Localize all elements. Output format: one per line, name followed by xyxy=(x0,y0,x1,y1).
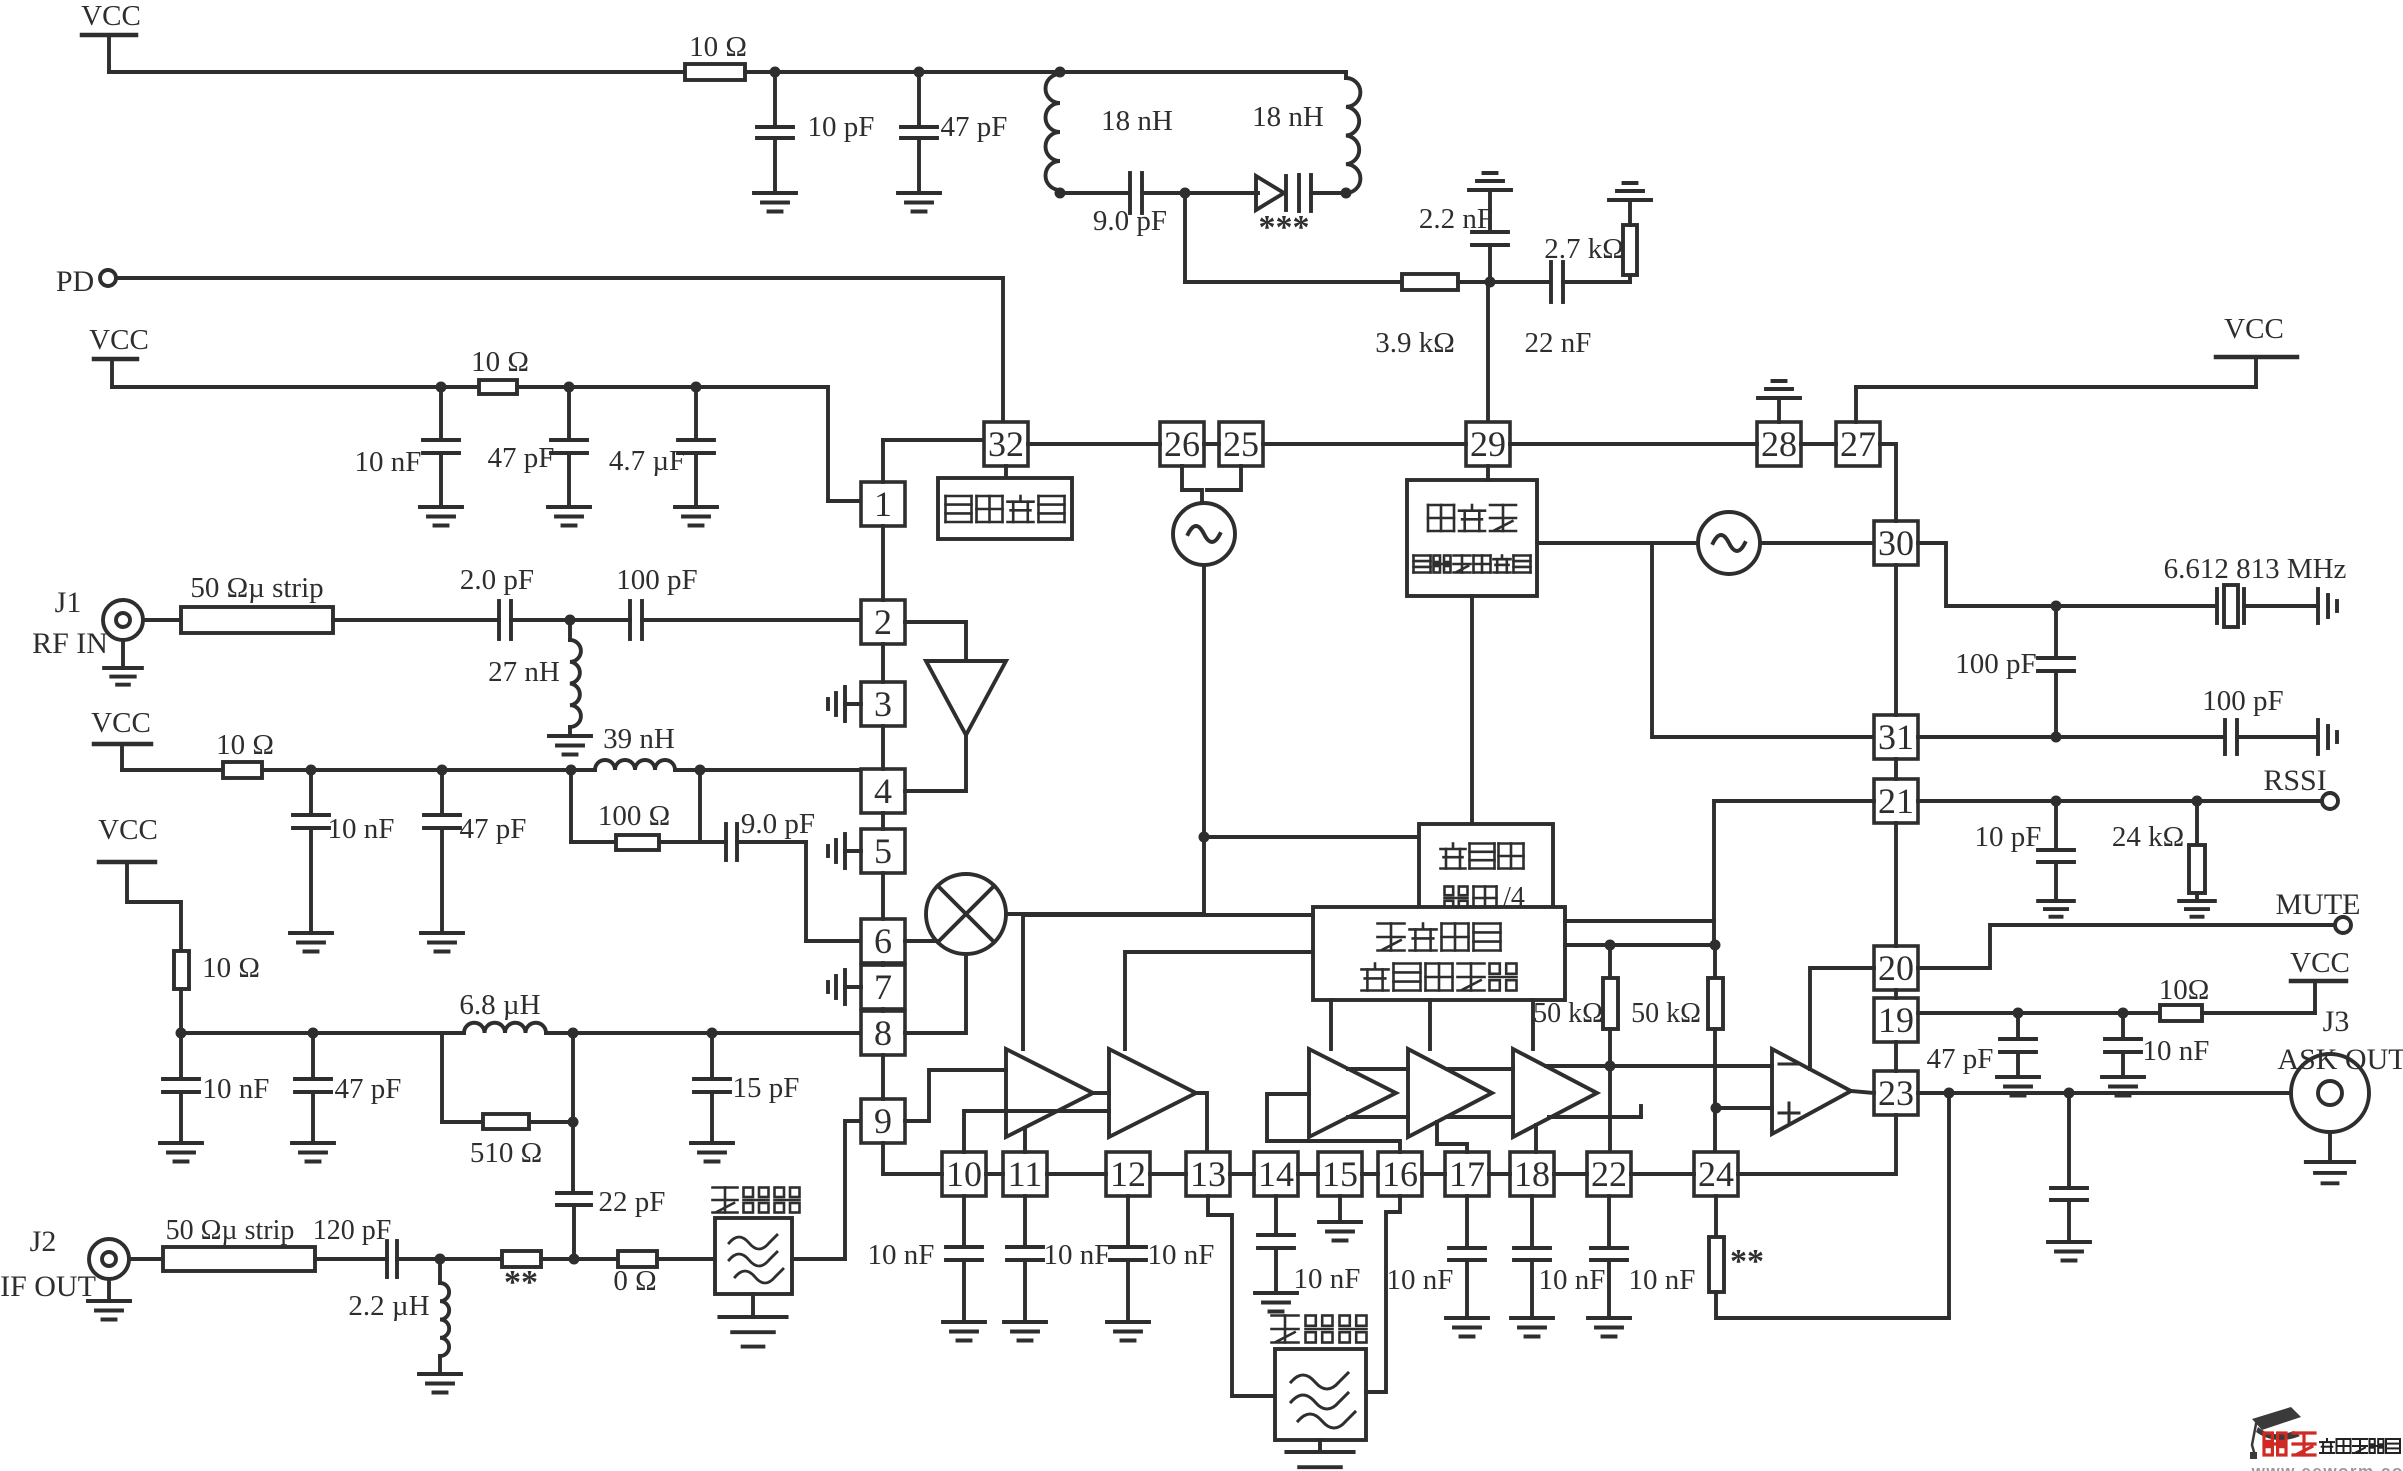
capacitor 15 pF xyxy=(694,1033,799,1143)
inductor 27 nH xyxy=(488,620,581,727)
wire pin19 right xyxy=(1918,1011,2160,1015)
ground pin 7 xyxy=(828,970,861,1004)
svg-text:7: 7 xyxy=(874,967,892,1007)
wire pin19-23 xyxy=(1894,1042,1898,1071)
wire pin4-pin5 xyxy=(881,813,885,829)
wire block right upper xyxy=(1565,919,1714,923)
svg-text:22 nF: 22 nF xyxy=(1525,327,1592,359)
wire filter to pin 9 xyxy=(792,1121,861,1259)
IC pin 7 xyxy=(861,965,905,1009)
ground xyxy=(1997,1077,2039,1096)
power VCC (top right) xyxy=(2216,313,2297,387)
wire rail3 to pin 4 xyxy=(675,768,861,772)
svg-text:3.9 kΩ: 3.9 kΩ xyxy=(1375,327,1455,359)
node junction xyxy=(691,382,702,393)
svg-text:510 Ω: 510 Ω xyxy=(470,1137,542,1169)
wire rail 3 xyxy=(122,768,223,772)
capacitor 10 nF (pin11) xyxy=(1007,1196,1110,1322)
capacitor 2.2 nF xyxy=(1419,190,1508,282)
ground xyxy=(1588,1318,1630,1337)
microstrip 50 Ohm (J1) xyxy=(181,572,333,633)
wire pin29 to block xyxy=(1486,466,1490,480)
IC pin 3 xyxy=(861,682,905,726)
node junction xyxy=(1944,1088,1955,1099)
svg-text:11: 11 xyxy=(1008,1154,1043,1194)
amplifier LNA xyxy=(926,661,1006,735)
wire pin11 to amp1 inv xyxy=(1023,1128,1027,1152)
node junction xyxy=(695,765,706,776)
wire phase det to prescaler xyxy=(1470,596,1474,824)
wire + input xyxy=(1716,1106,1772,1110)
capacitor 10 nF (pin22) xyxy=(1591,1196,1695,1318)
amplifier amp A2 xyxy=(1109,1049,1196,1137)
wire xyxy=(262,768,595,772)
resistor 2.7 kOhm xyxy=(1544,225,1637,275)
wire VCC to pin27 xyxy=(1856,387,2256,422)
IC pin 5 xyxy=(861,829,905,873)
ground xyxy=(675,507,717,526)
svg-text:6: 6 xyxy=(874,921,892,961)
svg-text:10 nF: 10 nF xyxy=(2143,1035,2210,1067)
IC pin 31 xyxy=(1874,715,1918,759)
svg-text:0 Ω: 0 Ω xyxy=(613,1265,656,1297)
svg-text:10 Ω: 10 Ω xyxy=(689,31,747,63)
node junction xyxy=(1180,188,1191,199)
svg-text:2: 2 xyxy=(874,602,892,642)
wire xyxy=(2244,604,2318,608)
svg-text:10 nF: 10 nF xyxy=(1148,1239,1215,1271)
wire pin31-21 xyxy=(1894,759,1898,779)
capacitor 10 nF (pin12) xyxy=(1110,1196,1214,1322)
node junction xyxy=(569,1254,580,1265)
svg-text:39 nH: 39 nH xyxy=(603,723,675,755)
resistor 10 Ohm (ASK) xyxy=(2159,974,2210,1021)
power VCC (ASK) xyxy=(2290,947,2350,981)
capacitor 47 pF (rail2) xyxy=(488,387,587,507)
IC pin 14 xyxy=(1254,1152,1298,1196)
svg-text:2.2 nF: 2.2 nF xyxy=(1419,203,1493,235)
capacitor 4.7 uF (rail2) xyxy=(609,387,714,507)
wire LO xyxy=(1202,565,1206,914)
resistor 10 Ohm (rail 2) xyxy=(471,346,529,394)
wire pin26 to osc xyxy=(1182,466,1202,503)
node junction xyxy=(1711,1103,1722,1114)
inductor 18 nH (left) xyxy=(1046,74,1173,190)
power VCC (top-left) xyxy=(81,0,141,72)
IC pin 8 xyxy=(861,1011,905,1055)
ground xyxy=(1446,1318,1488,1337)
ground xyxy=(1511,1318,1553,1337)
svg-text:10 Ω: 10 Ω xyxy=(216,729,274,761)
IC pin 24 xyxy=(1694,1152,1738,1196)
wire filter2 to pin16 xyxy=(1366,1196,1400,1392)
wire amp3-amp4 lower xyxy=(1348,1115,1408,1119)
block DC bias (Chinese) xyxy=(938,466,1072,539)
svg-text:VCC: VCC xyxy=(81,0,141,32)
ground xyxy=(290,933,332,952)
node junction xyxy=(1605,940,1616,951)
svg-text:2.7 kΩ: 2.7 kΩ xyxy=(1544,233,1624,265)
wire amp2 out to pin13 xyxy=(1196,1093,1207,1152)
capacitor 9.0 pF (IF) xyxy=(700,808,815,860)
capacitor 22 pF xyxy=(557,1033,665,1260)
IC pin 18 xyxy=(1510,1152,1554,1196)
ground xyxy=(2102,1077,2144,1096)
wire block to amp2 top xyxy=(1125,952,1313,1049)
wire amp4-amp5 upper xyxy=(1447,1067,1513,1071)
IC pin 6 xyxy=(861,919,905,963)
svg-text:5: 5 xyxy=(874,831,892,871)
resistor 24 kOhm xyxy=(2112,801,2205,901)
svg-text:15: 15 xyxy=(1322,1154,1358,1194)
ground above pin 28 xyxy=(1758,381,1800,422)
node junction xyxy=(2051,732,2062,743)
svg-text:10Ω: 10Ω xyxy=(2159,974,2210,1006)
wire pin13 to filter2 xyxy=(1208,1196,1275,1396)
filter block (2nd IF) xyxy=(1275,1349,1366,1440)
wire 14-15 xyxy=(1298,1172,1318,1176)
svg-text:10 nF: 10 nF xyxy=(328,813,395,845)
IC pin 15 xyxy=(1318,1152,1362,1196)
svg-text:47 pF: 47 pF xyxy=(335,1073,402,1105)
svg-text:100 pF: 100 pF xyxy=(2202,685,2283,717)
wire 24 to pin23 xyxy=(1738,1115,1896,1174)
wire pin9 to row xyxy=(883,1143,942,1174)
node junction xyxy=(2064,1088,2075,1099)
wire pin21-20 xyxy=(1894,823,1898,946)
capacitor 100 pF (J1) xyxy=(616,564,697,639)
wire to prescaler xyxy=(1204,835,1419,839)
wire 26-25 xyxy=(1204,442,1219,446)
svg-text:18 nH: 18 nH xyxy=(1101,105,1173,137)
svg-text:18: 18 xyxy=(1514,1154,1550,1194)
block phase detector & charge pump (Chinese) xyxy=(1407,480,1537,596)
wire 13-14 xyxy=(1230,1172,1254,1176)
svg-text:10 Ω: 10 Ω xyxy=(202,952,260,984)
capacitor 47 pF (ASK) xyxy=(1927,1013,2036,1077)
wire xyxy=(333,618,499,622)
svg-text:VCC: VCC xyxy=(91,707,151,739)
ground xyxy=(754,193,796,212)
capacitor 100 pF (xtal1) xyxy=(1955,606,2074,737)
IC pin 28 xyxy=(1757,422,1801,466)
ground xyxy=(160,1143,202,1162)
IC pin 25 xyxy=(1219,422,1263,466)
wire 25-29 xyxy=(1263,442,1466,446)
ground xyxy=(420,507,462,526)
label filter 2 (Chinese) xyxy=(1272,1316,1367,1343)
capacitor 10 pF (RSSI) xyxy=(1975,801,2074,901)
svg-text:4.7 µF: 4.7 µF xyxy=(609,445,685,477)
wire block to amp1 top xyxy=(1023,915,1313,1049)
svg-text:9.0 pF: 9.0 pF xyxy=(1093,205,1167,237)
ground pin 5 xyxy=(828,834,861,868)
IC pin 9 xyxy=(861,1099,905,1143)
ground xyxy=(549,727,591,755)
svg-text:8: 8 xyxy=(874,1013,892,1053)
IC pin 23 xyxy=(1874,1071,1918,1115)
svg-text:47 pF: 47 pF xyxy=(488,442,555,474)
amplifier amp A4 xyxy=(1408,1049,1492,1137)
svg-text:28: 28 xyxy=(1761,424,1797,464)
ground pin 15 xyxy=(1319,1196,1361,1241)
amplifier amp A5 xyxy=(1513,1049,1597,1137)
oscillator VCO xyxy=(1173,503,1235,565)
svg-text:10 nF: 10 nF xyxy=(1044,1239,1111,1271)
svg-text:120 pF: 120 pF xyxy=(313,1215,392,1246)
resistor 10 Ohm (rail 3) xyxy=(216,729,274,778)
inductor 2.2 uH xyxy=(348,1259,449,1356)
node junction xyxy=(770,67,781,78)
wire pin21 right xyxy=(1918,799,2322,803)
svg-text:10 nF: 10 nF xyxy=(1387,1264,1454,1296)
wire 10-11 xyxy=(986,1172,1003,1176)
varactor diode *** xyxy=(1256,175,1311,246)
wire xyxy=(546,1031,861,1035)
wire xyxy=(511,618,630,622)
capacitor 10 nF (pin10) xyxy=(868,1196,982,1322)
wire osc2 feedback to pin31 xyxy=(1652,543,1874,737)
ground filter 1 xyxy=(719,1294,786,1347)
capacitor 2.0 pF xyxy=(460,564,534,639)
wire pin10 to amp2 in xyxy=(964,1111,1109,1152)
node junction xyxy=(568,1028,579,1039)
ground J1 xyxy=(104,640,142,685)
ground xyxy=(1004,1322,1046,1341)
node junction xyxy=(436,382,447,393)
wire block to amp3 top xyxy=(1329,1000,1333,1049)
svg-text:***: *** xyxy=(1259,209,1310,246)
IC pin 12 xyxy=(1106,1152,1150,1196)
ground (up) xyxy=(1609,183,1651,200)
connector J3 ASK OUT xyxy=(2277,1005,2403,1132)
ground xyxy=(421,933,463,952)
oscillator (crystal) xyxy=(1698,512,1760,574)
node junction xyxy=(437,765,448,776)
label filter 1 (Chinese) xyxy=(713,1188,800,1213)
svg-text:PD: PD xyxy=(56,265,94,298)
IC pin 2 xyxy=(861,600,905,644)
wire pin16 to amp3 in xyxy=(1267,1094,1400,1152)
wire pin20 to MUTE xyxy=(1918,925,2335,968)
node junction xyxy=(707,1028,718,1039)
svg-text:**: ** xyxy=(1730,1243,1764,1280)
resistor 100 Ohm xyxy=(571,770,700,850)
resistor 50 kOhm (left) xyxy=(1533,945,1618,1152)
svg-text:27 nH: 27 nH xyxy=(488,656,560,688)
ground xyxy=(419,1356,461,1393)
wire xyxy=(179,989,183,1033)
terminal RSSI xyxy=(2263,764,2338,809)
resistor 10 Ohm (top rail) xyxy=(685,31,747,80)
wire 17-18 xyxy=(1489,1172,1510,1176)
wire block to amp5 top xyxy=(1531,1000,1535,1049)
svg-text:13: 13 xyxy=(1190,1154,1226,1194)
wire 11-12 xyxy=(1047,1172,1106,1176)
svg-text:J3: J3 xyxy=(2323,1005,2350,1038)
svg-text:10 nF: 10 nF xyxy=(868,1239,935,1271)
power VCC (rail 2) xyxy=(89,324,149,387)
svg-text:IF OUT: IF OUT xyxy=(0,1270,96,1303)
crystal 6.612813 MHz xyxy=(2164,553,2347,627)
ground (up) xyxy=(1469,173,1511,190)
wire rail 2 xyxy=(112,385,479,389)
capacitor 10 nF (pin17) xyxy=(1387,1196,1485,1318)
wire xyxy=(517,385,828,389)
svg-text:4: 4 xyxy=(874,771,892,811)
svg-text:10 Ω: 10 Ω xyxy=(471,346,529,378)
svg-text:47 pF: 47 pF xyxy=(941,111,1008,143)
node junction xyxy=(1485,277,1496,288)
terminal PD xyxy=(56,265,116,298)
svg-text:30: 30 xyxy=(1878,523,1914,563)
wire phase det to osc2 xyxy=(1537,541,1698,545)
wire pin9 to amp1 in xyxy=(905,1070,1006,1121)
ground J3 xyxy=(2306,1132,2354,1183)
resistor 3.9 kOhm xyxy=(1375,274,1458,359)
svg-text:2.2 µH: 2.2 µH xyxy=(348,1290,429,1322)
inductor 18 nH (right) xyxy=(1252,72,1360,193)
capacitor 10 nF (pin18) xyxy=(1514,1196,1605,1318)
wire to pin 2 xyxy=(642,618,861,622)
node junction xyxy=(1710,940,1721,951)
terminal MUTE xyxy=(2276,888,2361,933)
capacitor 10 nF (rail2) xyxy=(355,387,459,507)
ground xyxy=(2179,901,2215,917)
svg-text:29: 29 xyxy=(1470,424,1506,464)
wire pin7-pin8 xyxy=(881,1009,885,1011)
capacitor 47 pF (top) xyxy=(901,72,1007,193)
wire pin27 to pin30 xyxy=(1880,444,1896,521)
wire xyxy=(657,1257,715,1261)
wire xyxy=(1458,280,1549,284)
svg-text:9.0 pF: 9.0 pF xyxy=(741,808,815,840)
svg-text:RSSI: RSSI xyxy=(2263,764,2326,797)
wire pin2-pin3 xyxy=(881,644,885,682)
svg-text:10 nF: 10 nF xyxy=(1294,1263,1361,1295)
ground J2 xyxy=(88,1279,130,1320)
wire pin21 left xyxy=(1714,801,1874,945)
IC pin 20 xyxy=(1874,946,1918,990)
node junction xyxy=(565,615,576,626)
svg-text:10 pF: 10 pF xyxy=(808,111,875,143)
node junction xyxy=(1055,188,1066,199)
power VCC (rail 3) xyxy=(91,707,151,770)
wire 12-13 xyxy=(1150,1172,1186,1176)
IC pin 16 xyxy=(1378,1152,1422,1196)
wire mixer to LO xyxy=(1006,912,1204,916)
wire LNA to pin4 xyxy=(905,735,966,791)
ground xyxy=(292,1143,334,1162)
node junction xyxy=(2051,601,2062,612)
resistor ** (pin24) xyxy=(1709,1196,1764,1292)
block linear signal strength indicator (Chinese) xyxy=(1313,907,1565,1000)
IC pin 19 xyxy=(1874,998,1918,1042)
wire ** to output xyxy=(1716,1093,1949,1318)
svg-text:50 Ωµ strip: 50 Ωµ strip xyxy=(190,572,323,604)
wire comparator out to pin23 xyxy=(1851,1091,1874,1093)
wire pin6 to mixer xyxy=(905,939,938,943)
svg-text:26: 26 xyxy=(1164,424,1200,464)
wire amp3-amp4 upper xyxy=(1348,1067,1408,1071)
svg-text:10 nF: 10 nF xyxy=(1539,1264,1606,1296)
connector J1 RF IN xyxy=(32,586,181,660)
wire varactor bias xyxy=(1185,193,1402,282)
IC pin 1 xyxy=(861,482,905,526)
capacitor 10 nF (pin14) xyxy=(1258,1196,1360,1295)
capacitor 10 pF (top) xyxy=(757,72,874,193)
svg-text:47 pF: 47 pF xyxy=(1927,1043,1994,1075)
ground xyxy=(943,1322,985,1341)
svg-text:22: 22 xyxy=(1591,1154,1627,1194)
wire amp5 out lower xyxy=(1549,1106,1641,1117)
svg-text:100 pF: 100 pF xyxy=(1955,648,2036,680)
svg-text:2.0 pF: 2.0 pF xyxy=(460,564,534,596)
svg-text:27: 27 xyxy=(1840,424,1876,464)
svg-text:RF IN: RF IN xyxy=(32,627,108,660)
wire xyxy=(1311,191,1346,195)
svg-text:21: 21 xyxy=(1878,781,1914,821)
IC pin 21 xyxy=(1874,779,1918,823)
wire pin2 to LNA xyxy=(905,622,966,661)
ground xyxy=(2048,1242,2090,1261)
svg-text:100 pF: 100 pF xyxy=(616,564,697,596)
svg-text:12: 12 xyxy=(1110,1154,1146,1194)
node junction xyxy=(914,67,925,78)
node junction xyxy=(1199,832,1210,843)
capacitor 47 pF (rail4) xyxy=(295,1033,401,1143)
svg-text:24: 24 xyxy=(1698,1154,1734,1194)
capacitor 47 pF (rail3) xyxy=(424,770,526,933)
resistor 10 Ohm (vertical) xyxy=(174,951,260,989)
node junction xyxy=(2192,796,2203,807)
capacitor 10 nF (ASK) xyxy=(2105,1013,2209,1077)
svg-text:6.612 813 MHz: 6.612 813 MHz xyxy=(2164,553,2347,585)
node junction xyxy=(566,765,577,776)
wire rail 4 xyxy=(181,1031,464,1035)
wire pin5-pin6 xyxy=(881,873,885,919)
block prescaler /4 (Chinese) xyxy=(1419,824,1553,924)
svg-text:9: 9 xyxy=(874,1101,892,1141)
wire 29-28 xyxy=(1510,442,1757,446)
svg-text:VCC: VCC xyxy=(89,324,149,356)
resistor 50 kOhm (right) xyxy=(1631,945,1723,1152)
IC pin 13 xyxy=(1186,1152,1230,1196)
svg-text:50 Ωµ strip: 50 Ωµ strip xyxy=(166,1215,295,1246)
wire xyxy=(1185,191,1258,195)
svg-text:16: 16 xyxy=(1382,1154,1418,1194)
wire 18-22 xyxy=(1554,1172,1587,1176)
svg-text:www.eeworm.com: www.eeworm.com xyxy=(2251,1462,2403,1471)
node junction xyxy=(435,1254,446,1265)
svg-text:100 Ω: 100 Ω xyxy=(598,800,670,832)
wire 16-17 xyxy=(1422,1172,1445,1176)
wire 15-16 xyxy=(1362,1172,1378,1176)
node junction xyxy=(306,765,317,776)
svg-text:10 nF: 10 nF xyxy=(203,1073,270,1105)
amplifier amp A3 xyxy=(1309,1049,1396,1137)
node junction xyxy=(2118,1008,2129,1019)
wire xyxy=(1563,275,1630,282)
node junction xyxy=(568,1117,579,1128)
power VCC (rail 4) xyxy=(98,814,181,951)
wire pin31 right xyxy=(1918,735,2225,739)
ground xyxy=(1107,1322,1149,1341)
svg-text:VCC: VCC xyxy=(2224,313,2284,345)
capacitor 100 pF (xtal2) xyxy=(2202,685,2283,754)
wire to pin 6 xyxy=(737,842,861,941)
svg-text:47 pF: 47 pF xyxy=(460,813,527,845)
